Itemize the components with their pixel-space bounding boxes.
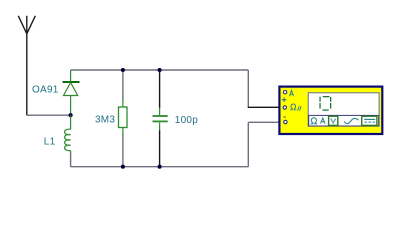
node bottom rail C junction dot	[158, 165, 162, 169]
inductor L1 lead	[70, 115, 72, 129]
node top rail C junction dot	[158, 68, 162, 72]
button sine wave glyph	[344, 118, 358, 123]
wire top rail	[71, 69, 249, 71]
resistor R1 upper lead	[122, 99, 124, 107]
diode D1 OA91 lead	[70, 70, 72, 115]
button V glyph	[331, 118, 336, 123]
svg-text:L1: L1	[44, 136, 56, 147]
capacitor C1 bottom plate	[153, 120, 168, 122]
wire L1 to bottom rail	[70, 153, 72, 167]
wire resistor branch bottom	[122, 134, 124, 167]
node top rail R junction dot	[121, 68, 125, 72]
inductor L1 lower lead	[70, 151, 72, 154]
DC solid line	[364, 118, 375, 120]
terminal minus sign	[283, 116, 285, 118]
capacitor C1 top plate	[153, 115, 168, 117]
diode D1 triangle	[64, 83, 78, 96]
svg-text:100p: 100p	[175, 115, 198, 126]
wire into meter + terminal (dark)	[248, 106, 280, 108]
wire into meter com terminal	[248, 121, 279, 123]
button A glyph	[321, 118, 326, 124]
terminal plus sign	[282, 97, 287, 102]
multimeter U1 body	[279, 87, 382, 134]
terminal A letter	[290, 90, 294, 96]
display digit 0 (seven segment)	[319, 96, 331, 111]
multimeter display panel	[308, 93, 379, 126]
wire capacitor branch bottom (dark)	[159, 130, 161, 167]
terminal A circle	[283, 91, 286, 94]
antenna	[18, 16, 35, 115]
terminal ohm glyph	[290, 104, 296, 110]
button V selected box	[329, 116, 338, 125]
button omega glyph	[311, 118, 318, 124]
terminal com circle	[284, 120, 287, 123]
button strip	[309, 115, 379, 126]
terminal slashes	[298, 106, 302, 110]
svg-text:3M3: 3M3	[95, 115, 115, 126]
node A junction dot	[69, 113, 73, 117]
wire right vertical from top rail to meter level	[247, 70, 249, 107]
diode D1 cathode bar	[63, 81, 80, 83]
inductor L1 coil	[65, 129, 71, 150]
DC dashed line	[364, 121, 375, 123]
wire antenna to node A	[26, 114, 70, 116]
resistor R1 body	[119, 107, 128, 128]
wire capacitor branch top (dark)	[159, 70, 161, 108]
wire resistor branch top	[122, 70, 124, 100]
resistor R1 lower lead	[122, 128, 124, 136]
wire bottom rail up to meter com	[247, 122, 249, 167]
svg-text:OA91: OA91	[32, 85, 59, 96]
capacitor C1 lower lead	[159, 123, 161, 131]
node bottom rail R junction dot	[121, 165, 125, 169]
button DC selected box	[362, 116, 377, 125]
terminal ohm circle	[283, 106, 286, 109]
wire bottom rail	[71, 166, 249, 168]
capacitor C1 upper lead	[159, 108, 161, 116]
